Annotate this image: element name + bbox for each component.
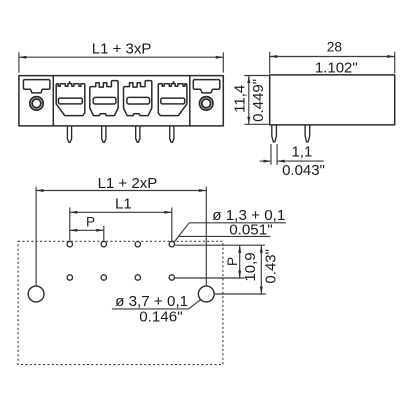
hole B3	[135, 275, 140, 280]
dimension 10,9 / 0.43" (mounting hole offset)	[242, 245, 280, 294]
svg-text:28: 28	[327, 39, 343, 54]
front view body outline	[19, 76, 223, 126]
extension line from right mounting hole	[215, 293, 266, 295]
pole 4 housing	[158, 82, 187, 116]
left flange divider wall	[52, 76, 54, 126]
leader line for hole A4 to dia 1,3 label	[174, 223, 286, 242]
svg-text:10,9: 10,9	[242, 252, 259, 281]
dimension L1 + 2xP (footprint mounting hole span)	[36, 175, 206, 286]
svg-text:0.043": 0.043"	[282, 162, 325, 179]
svg-text:P: P	[86, 215, 95, 230]
left flange latch slot	[23, 80, 50, 93]
hole A2	[101, 242, 106, 247]
hole B2	[101, 275, 106, 280]
pole 1 housing	[56, 82, 85, 116]
side view body outline	[270, 75, 395, 125]
svg-text:0.43": 0.43"	[263, 249, 280, 284]
pin hole row 2	[67, 275, 174, 280]
solder pin left (side view)	[272, 125, 277, 142]
pole 2 housing	[90, 81, 118, 116]
solder pin 3 (front view)	[136, 126, 140, 142]
solder pin 1 (front view)	[67, 126, 71, 142]
right flange screw hole inner	[202, 99, 211, 108]
svg-text:0.449": 0.449"	[250, 79, 267, 122]
solder pin right (side view)	[305, 125, 310, 142]
svg-text:0.051": 0.051"	[229, 221, 272, 238]
svg-text:P: P	[225, 257, 240, 266]
extension line from hole A4	[175, 244, 265, 246]
hole B1	[67, 275, 72, 280]
hole A4	[169, 242, 174, 247]
mounting hole right	[198, 286, 214, 302]
left flange screw hole inner	[32, 99, 41, 108]
dimension L1 (footprint outer pin span)	[70, 196, 172, 241]
solder pin 4 (front view)	[170, 126, 174, 142]
right flange screw hole outer	[200, 97, 213, 110]
pin hole row 1	[67, 242, 174, 247]
extension line from hole B4	[175, 277, 245, 279]
right flange divider wall	[189, 76, 191, 126]
dimension 28 / 1.102" (side view width)	[270, 39, 395, 76]
dimension 1,1 / 0.043" (pin thickness)	[260, 143, 325, 179]
footprint board outline (dashed)	[18, 241, 223, 364]
pole 3 housing	[124, 81, 152, 116]
svg-text:1,1: 1,1	[291, 143, 312, 160]
left flange screw hole outer	[30, 97, 43, 110]
solder pin 2 (front view)	[102, 126, 106, 142]
svg-text:L1 + 3xP: L1 + 3xP	[92, 40, 152, 57]
dimension P (pitch)	[70, 215, 104, 241]
hole A3	[135, 242, 140, 247]
dimension P (row pitch vertical)	[225, 245, 241, 278]
leader line for mounting hole to dia 3,7 label	[112, 300, 200, 309]
hole A1	[67, 242, 72, 247]
mounting hole left	[28, 286, 44, 302]
dimension 11,4 / 0.449" (side view height)	[232, 76, 269, 125]
svg-text:1.102": 1.102"	[315, 60, 358, 77]
svg-text:L1 + 2xP: L1 + 2xP	[98, 175, 158, 192]
svg-text:11,4: 11,4	[232, 85, 249, 113]
svg-text:L1: L1	[115, 196, 132, 213]
hole B4	[169, 275, 174, 280]
right flange latch slot	[193, 80, 220, 93]
dimension L1 + 3xP (front view overall width)	[19, 40, 223, 72]
svg-text:0.146": 0.146"	[139, 309, 182, 326]
